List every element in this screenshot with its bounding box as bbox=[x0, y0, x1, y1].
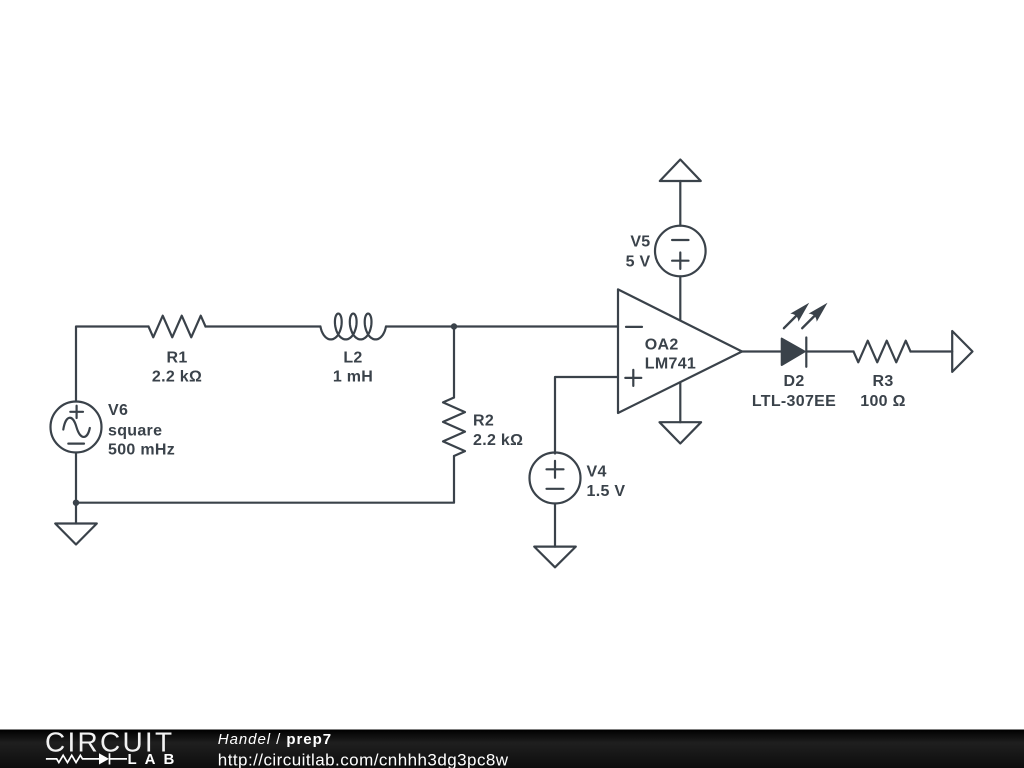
resistor R2 bbox=[443, 398, 465, 457]
svg-text:LM741: LM741 bbox=[645, 355, 696, 372]
svg-text:square: square bbox=[108, 423, 162, 440]
wire LED to R3 bbox=[806, 350, 853, 352]
power flag (V5 top) bbox=[660, 160, 701, 182]
svg-text:1 mH: 1 mH bbox=[333, 368, 373, 385]
node junction dot A bbox=[451, 323, 457, 329]
ground (V6) bbox=[55, 524, 97, 545]
op-amp OA2 triangle bbox=[618, 289, 742, 413]
ground (V4) bbox=[534, 547, 576, 568]
wire V5 to op-amp V+ bbox=[679, 276, 681, 320]
svg-text:2.2 kΩ: 2.2 kΩ bbox=[152, 368, 202, 385]
logo resistor-diode squiggle bbox=[46, 753, 127, 764]
wire bottom rail bbox=[76, 456, 454, 503]
svg-text:5 V: 5 V bbox=[626, 254, 651, 271]
svg-text:L2: L2 bbox=[343, 349, 362, 366]
wire top-left: V6 to R1 bbox=[76, 327, 149, 402]
voltage source V4 bbox=[530, 453, 581, 504]
LED D2 triangle bbox=[782, 339, 805, 365]
wire V4 bottom bbox=[554, 504, 556, 547]
wire R1 to L2 bbox=[206, 325, 321, 327]
svg-text:R3: R3 bbox=[872, 373, 893, 390]
svg-text:R2: R2 bbox=[473, 413, 494, 430]
node junction dot B bbox=[73, 500, 79, 506]
svg-text:R1: R1 bbox=[166, 349, 187, 366]
wire R3 to output flag bbox=[911, 350, 953, 352]
svg-text:LTL-307EE: LTL-307EE bbox=[752, 393, 836, 410]
svg-text:D2: D2 bbox=[783, 373, 804, 390]
wire power flag to V5 bbox=[679, 181, 681, 226]
svg-text:2.2 kΩ: 2.2 kΩ bbox=[473, 432, 523, 449]
wire V6 bottom bbox=[75, 453, 77, 524]
LED arrow shafts bbox=[784, 314, 816, 328]
inductor L2 bbox=[320, 314, 386, 340]
ground (op-amp) bbox=[660, 422, 702, 443]
svg-text:http://circuitlab.com/cnhhh3dg: http://circuitlab.com/cnhhh3dg3pc8w bbox=[218, 751, 509, 768]
footer bar bbox=[0, 730, 1024, 768]
svg-text:Handel / prep7: Handel / prep7 bbox=[218, 731, 332, 748]
resistor R3 bbox=[854, 341, 911, 363]
voltage source V6 bbox=[51, 402, 102, 453]
wire op-amp out to LED bbox=[742, 350, 782, 352]
LED D2 cathode bar bbox=[805, 338, 807, 367]
svg-text:1.5 V: 1.5 V bbox=[587, 483, 626, 500]
LED arrowhead 1 bbox=[790, 303, 809, 322]
voltage source V5 bbox=[655, 226, 706, 277]
resistor R1 bbox=[149, 316, 206, 338]
op-amp minus symbol bbox=[626, 326, 642, 328]
logo diode fill bbox=[99, 753, 109, 764]
svg-text:LAB: LAB bbox=[128, 751, 183, 768]
wire L2 to op-amp minus input bbox=[386, 325, 618, 327]
wire R2 top to node bbox=[453, 327, 455, 398]
wire op-amp plus input bbox=[555, 377, 618, 454]
wire op-amp V- to ground bbox=[679, 382, 681, 422]
svg-text:500 mHz: 500 mHz bbox=[108, 441, 175, 458]
svg-text:V6: V6 bbox=[108, 402, 128, 419]
LED arrowhead 2 bbox=[809, 303, 828, 322]
svg-text:V4: V4 bbox=[587, 464, 607, 481]
output flag bbox=[952, 331, 972, 372]
svg-text:OA2: OA2 bbox=[645, 336, 679, 353]
svg-text:V5: V5 bbox=[630, 233, 650, 250]
svg-text:100 Ω: 100 Ω bbox=[860, 393, 905, 410]
op-amp plus symbol bbox=[625, 370, 641, 386]
